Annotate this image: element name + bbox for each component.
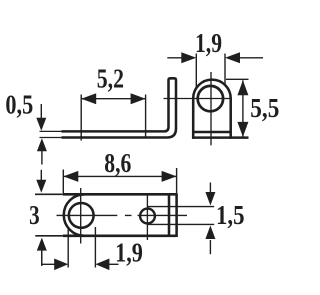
dim 1,9 top right arrow [238, 57, 263, 59]
bottom view: big hole [69, 203, 94, 228]
dim 1,9 bottom right arrow [109, 263, 119, 265]
bottom view: plate bottom edge [35, 235, 63, 237]
dim 1,9 top left arrow [167, 57, 183, 59]
dim 1,5 extension lines [148, 207, 214, 225]
dim 5,2 line with arrows [81, 98, 145, 100]
bottom view: rounded left end [64, 194, 85, 236]
dim 1,9 top extension lines [196, 54, 225, 88]
dim 5,5 line with arrows [242, 80, 244, 137]
side view: tab hole [198, 86, 223, 111]
dim 5,2 extension lines [81, 95, 145, 141]
dim 0,5 lower arrow [37, 138, 47, 151]
dim 1,9 bottom left corner arrow [42, 250, 55, 264]
dim 1,5 lower arrow [209, 240, 211, 254]
bottom view: small hole [140, 209, 155, 224]
bottom view: plate top edge [35, 193, 63, 195]
side view: plate bottom line across tab (also 5,5 lower extension) [192, 136, 249, 139]
side view: plate top line across tab [193, 131, 231, 134]
dim 0,5 upper arrow [36, 118, 46, 131]
bottom view: horizontal centerline [57, 214, 188, 216]
dim 3 lower arrow [37, 238, 47, 251]
dim 1,5 upper arrow [209, 183, 211, 193]
side view: tab hole vertical centerline [210, 72, 212, 145]
svg-text:5,5: 5,5 [250, 93, 279, 123]
bottom view: big hole vertical centerline [80, 188, 82, 244]
side view: tab hole horizontal centerline [164, 98, 230, 100]
svg-text:1,5: 1,5 [216, 200, 245, 230]
side view: tab outline with semicircular top [193, 80, 231, 139]
svg-text:1,9: 1,9 [195, 28, 222, 58]
dim 8,6 line with arrows [63, 175, 176, 177]
side view: thin solder strip [40, 131, 63, 137]
dim 3 upper arrow [36, 180, 46, 193]
dimensions [5, 28, 279, 270]
svg-text:0,5: 0,5 [5, 90, 33, 120]
svg-text:5,2: 5,2 [97, 64, 124, 94]
svg-text:8,6: 8,6 [104, 148, 131, 178]
dim 1,9 bottom extension lines [68, 227, 95, 268]
dim 8,6 extension lines [63, 168, 176, 193]
side view: L-profile outline (strip + bend + upright hairpin) [62, 78, 177, 137]
bottom view: small hole vertical centerline [146, 196, 148, 241]
bottom view: right edge [175, 193, 178, 237]
svg-text:3: 3 [29, 200, 39, 230]
bottom view: bend line [168, 193, 171, 237]
svg-text:1,9: 1,9 [115, 238, 143, 268]
dim 5,5 top extension line [226, 78, 249, 80]
